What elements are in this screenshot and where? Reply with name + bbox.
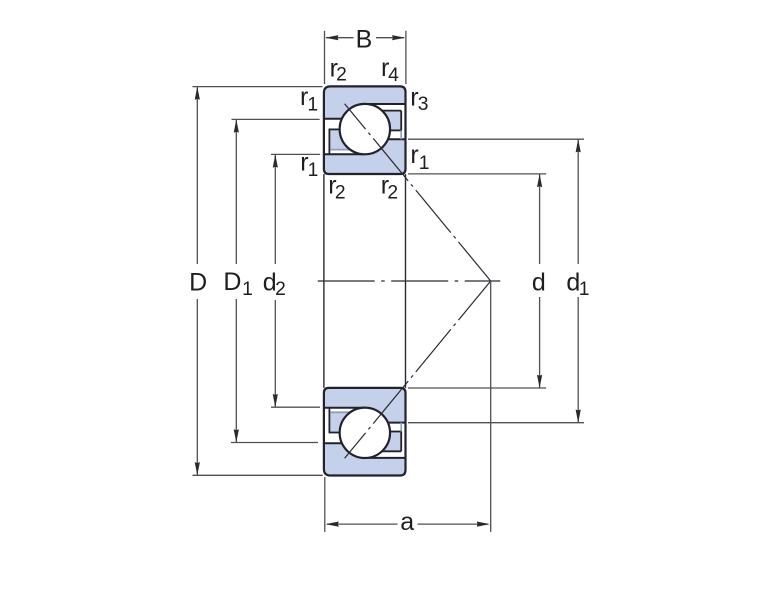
cage left segment — [329, 129, 352, 155]
svg-text:r3: r3 — [410, 83, 428, 115]
dimension a extension right (apex vertical) — [490, 281, 492, 532]
side face connector line right — [405, 174, 407, 388]
outer ring right face line bottom — [363, 457, 406, 459]
dimension D1 line — [234, 119, 239, 442]
svg-text:r1: r1 — [300, 149, 318, 181]
outer ring right face line — [363, 103, 406, 105]
dimension a line — [326, 522, 490, 527]
outer ring top section — [324, 86, 406, 118]
inner ring right face line bottom — [342, 422, 406, 424]
outer ring left face line bottom — [324, 442, 342, 444]
dimension a extension left — [324, 477, 326, 532]
svg-text:r2: r2 — [330, 55, 347, 86]
svg-text:D1: D1 — [223, 268, 252, 300]
inner ring bottom section — [324, 388, 406, 423]
outer ring bottom section — [324, 443, 406, 475]
dimension d1 extension top — [408, 138, 584, 140]
svg-text:d: d — [532, 268, 546, 296]
dimension d extension bottom — [408, 387, 546, 389]
dimension d extension top — [408, 173, 546, 175]
dimension B line — [325, 35, 405, 40]
bearing outline top — [324, 86, 406, 174]
svg-text:B: B — [356, 25, 373, 53]
svg-text:r4: r4 — [381, 54, 399, 86]
cage left segment bottom — [329, 408, 352, 434]
svg-text:d1: d1 — [566, 268, 589, 300]
contact angle line bottom — [345, 281, 491, 458]
dimension D extension bottom — [193, 474, 323, 476]
inner ring right face line — [342, 138, 406, 140]
inner ring left face line bottom — [324, 407, 362, 409]
svg-text:D: D — [189, 269, 207, 297]
dimension d2 line — [273, 154, 278, 407]
svg-text:a: a — [400, 508, 414, 536]
dimension D line — [195, 87, 200, 476]
dimension D extension top — [193, 86, 323, 88]
svg-text:r1: r1 — [410, 141, 429, 174]
inner ring left face line — [324, 153, 362, 155]
cage right segment bottom — [378, 423, 401, 452]
dimension d1 extension bottom — [408, 422, 584, 424]
inner ring top section — [324, 139, 406, 174]
cage right segment — [378, 111, 401, 140]
dimension d1 line — [576, 139, 581, 423]
dimension d2 extension bottom — [271, 406, 320, 408]
dimension D1 extension top — [232, 118, 320, 120]
dimension d line — [537, 174, 542, 388]
ball bottom — [340, 408, 390, 458]
bearing section bottom (mirror) — [324, 388, 406, 476]
dimension d2 extension top — [271, 153, 320, 155]
svg-text:d2: d2 — [263, 268, 286, 300]
side face connector line left — [323, 174, 325, 388]
bearing outline bottom — [324, 388, 406, 476]
svg-text:r1: r1 — [300, 83, 318, 116]
ball top — [340, 104, 390, 154]
svg-text:r2: r2 — [381, 171, 398, 203]
bearing section top — [324, 86, 406, 174]
dimension D1 extension bottom — [231, 442, 318, 444]
svg-text:r2: r2 — [328, 172, 345, 204]
dimension B extension right — [405, 31, 407, 84]
outer ring left face line — [324, 118, 342, 120]
horizontal centerline — [318, 280, 501, 282]
dimension B extension left — [324, 31, 326, 84]
contact angle line top — [345, 104, 491, 281]
